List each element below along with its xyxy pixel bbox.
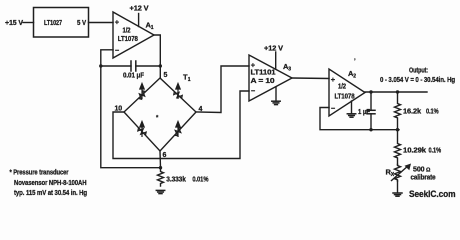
- op-amp A3 LT1101 triangle: [249, 55, 292, 101]
- svg-text:16.2k: 16.2k: [403, 109, 421, 116]
- node output / 1uF: [369, 90, 372, 93]
- svg-text:+: +: [115, 18, 120, 27]
- svg-text:3.333k: 3.333k: [166, 177, 186, 184]
- svg-text:1: 1: [188, 77, 191, 83]
- svg-text:+: +: [251, 61, 256, 70]
- ground below A3 stem: [275, 87, 277, 101]
- strain element top-right arm: [174, 92, 182, 99]
- svg-text:A = 10: A = 10: [251, 78, 275, 85]
- svg-text:5 V: 5 V: [77, 20, 86, 27]
- svg-text:1/2: 1/2: [338, 84, 346, 91]
- svg-text:Output:: Output:: [409, 67, 428, 74]
- svg-text:0.1%: 0.1%: [426, 109, 439, 116]
- resistor 16.2k zigzag: [395, 92, 401, 130]
- svg-text:Ω: Ω: [426, 168, 431, 174]
- svg-text:1 μF: 1 μF: [358, 109, 371, 116]
- svg-text:LT1078: LT1078: [335, 94, 355, 101]
- potentiometer Rx arrowhead: [405, 164, 412, 171]
- svg-text:0.01 μF: 0.01 μF: [123, 73, 145, 80]
- svg-text:–: –: [251, 86, 255, 95]
- node 5 junction: [159, 64, 162, 67]
- svg-text:LT1101: LT1101: [251, 69, 276, 76]
- svg-text:Novasensor NPH-8-100AH: Novasensor NPH-8-100AH: [14, 180, 87, 187]
- wire +12V supply A1: [138, 14, 140, 27]
- wire +12V supply A3: [275, 52, 277, 69]
- capacitor C1 0.01uF wires: [101, 65, 131, 67]
- svg-text:500: 500: [413, 167, 425, 174]
- svg-text:typ. 115 mV at 30.54 in. Hg: typ. 115 mV at 30.54 in. Hg: [14, 190, 87, 197]
- svg-text:10.29k: 10.29k: [403, 148, 426, 155]
- strain element bottom-left arm: [138, 128, 146, 135]
- svg-text:SeekIC.com: SeekIC.com: [409, 189, 456, 199]
- potentiometer Rx wiper arrow: [392, 166, 409, 181]
- ground below A2 stem: [351, 101, 353, 114]
- resistor 3.333k zigzag: [158, 168, 164, 186]
- svg-text:0.01%: 0.01%: [192, 177, 209, 184]
- svg-text:2: 2: [353, 74, 356, 80]
- op-amp A2 1/2 LT1078 triangle: [329, 69, 365, 116]
- ground below A2 bars: [347, 113, 355, 115]
- wire node 4 to A3 non-inverting input: [196, 66, 249, 113]
- svg-text:3: 3: [288, 67, 291, 73]
- wire LT1027 output to A1 + input: [89, 22, 114, 24]
- node feedback / 1uF bottom: [369, 128, 372, 131]
- capacitor 1uF plates: [367, 109, 375, 111]
- strain element bottom-right arm: [175, 127, 182, 135]
- node 6 / 3.333k junction: [159, 166, 162, 169]
- ground below Rx stem: [397, 181, 399, 193]
- svg-text:–: –: [115, 45, 119, 54]
- svg-text:5: 5: [164, 72, 168, 79]
- resistor 10.29k zigzag: [395, 130, 401, 165]
- ground below A3 bars: [272, 100, 280, 102]
- svg-text:10: 10: [115, 106, 123, 113]
- wire A3 output to A2 + input: [292, 77, 329, 80]
- wire A1 inverting input feedback down left side: [101, 50, 161, 168]
- node output / 16.2k: [396, 90, 399, 93]
- strain element top-left arm: [138, 91, 145, 99]
- bridge arm strain arrows: [138, 84, 182, 138]
- svg-text:calibrate: calibrate: [411, 174, 436, 181]
- svg-text:LT1078: LT1078: [118, 36, 138, 43]
- svg-text:1: 1: [151, 25, 154, 31]
- svg-text:1/2: 1/2: [123, 27, 131, 34]
- op-amp A1 1/2 LT1078 triangle: [113, 12, 154, 58]
- svg-text:+12 V: +12 V: [264, 46, 283, 53]
- svg-text:LT1027: LT1027: [44, 20, 62, 27]
- svg-text:+12 V: +12 V: [130, 6, 149, 13]
- svg-text:+15 V: +15 V: [5, 20, 23, 27]
- capacitor C1 plates: [130, 61, 132, 71]
- svg-text:6: 6: [163, 152, 167, 159]
- wire node 10 to A3 inverting input: [113, 91, 249, 159]
- node A1 minus / cap left: [99, 64, 102, 67]
- svg-text:4: 4: [199, 106, 203, 113]
- svg-text:* Pressure transducer: * Pressure transducer: [10, 170, 69, 177]
- bridge transducer T1 diamond: [124, 78, 196, 151]
- node feedback / 16.2k bottom: [396, 128, 399, 131]
- wire A1 output elbow: [154, 35, 160, 78]
- potentiometer Rx 500 ohm zigzag: [395, 165, 401, 182]
- wire node 6 down to 3.333k junction: [159, 151, 162, 168]
- wire A2 inverting feedback loop: [320, 108, 399, 130]
- svg-text:0.1%: 0.1%: [429, 148, 442, 155]
- ground below 3.333k: [156, 189, 164, 191]
- svg-text:+: +: [331, 75, 336, 84]
- voltage reference LT1027 box: [34, 8, 89, 38]
- capacitor 1uF stems: [370, 92, 372, 110]
- wire A2 output line: [365, 91, 427, 93]
- wire +15V input: [23, 22, 34, 24]
- svg-text:0 - 3.054 V = 0 - 30.54in. Hg: 0 - 3.054 V = 0 - 30.54in. Hg: [380, 77, 455, 84]
- svg-text:–: –: [331, 104, 335, 113]
- ground below Rx bars: [393, 192, 402, 194]
